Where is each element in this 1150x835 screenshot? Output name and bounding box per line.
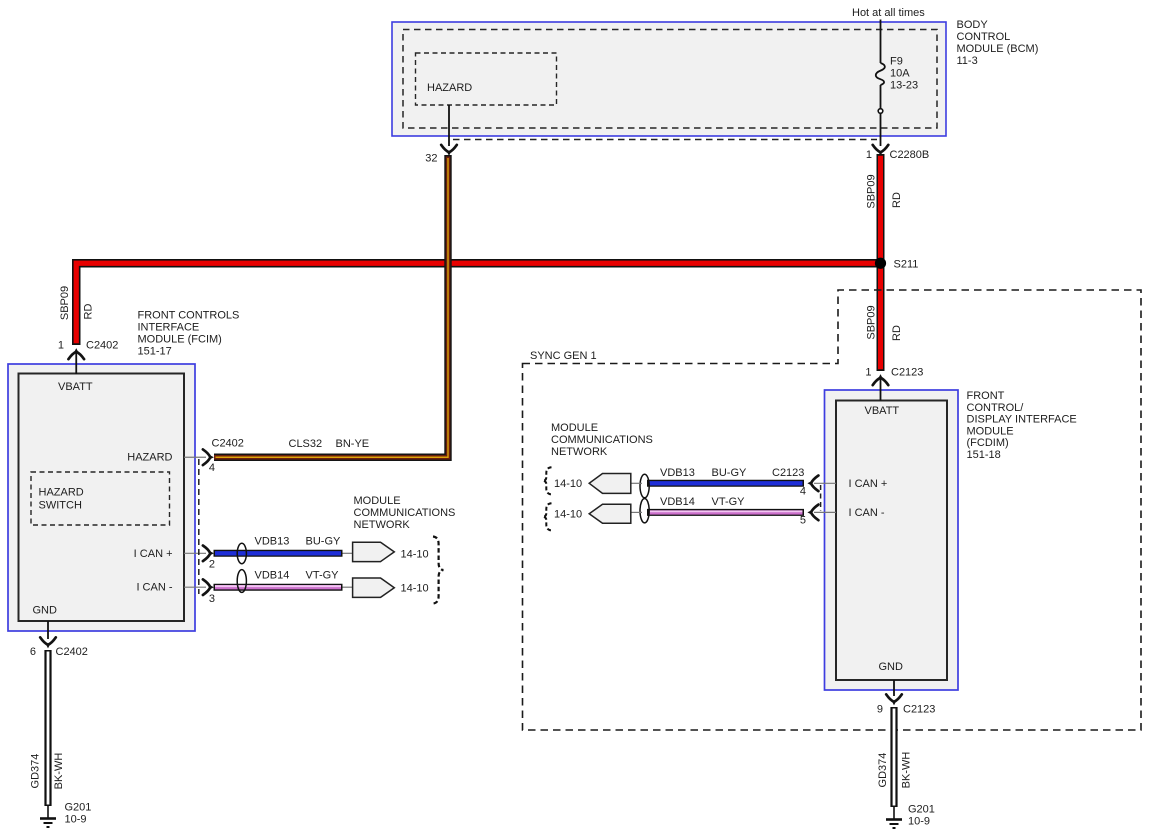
wire CLS32 BN-YE from BCM pin32 to FCIM pin4 [214, 155, 448, 457]
module FCDIM outer box [825, 390, 959, 690]
svg-text:C2123: C2123 [891, 367, 923, 379]
pin 5 of FCDIM C2123 [800, 505, 819, 527]
svg-text:FRONT CONTROLS: FRONT CONTROLS [138, 310, 240, 322]
svg-text:1: 1 [865, 367, 871, 379]
svg-text:MODULE (BCM): MODULE (BCM) [957, 43, 1039, 55]
svg-text:C2123: C2123 [903, 704, 935, 716]
svg-text:G201: G201 [65, 802, 92, 814]
brace left-facing lower right [543, 503, 552, 530]
svg-text:VDB14: VDB14 [255, 570, 290, 582]
wire GND lead out of FCIM [47, 621, 49, 639]
pin 4 of FCDIM C2123 [800, 476, 819, 498]
svg-text:C2123: C2123 [772, 467, 804, 479]
lead line off-page connector upper right [631, 482, 642, 484]
svg-text:5: 5 [800, 515, 806, 527]
svg-text:SBP09: SBP09 [865, 174, 877, 208]
hazard relay dashed box in BCM [416, 53, 557, 105]
svg-text:COMMUNICATIONS: COMMUNICATIONS [551, 434, 653, 446]
svg-text:FRONT: FRONT [967, 390, 1005, 402]
lead line FCIM pin 4 [184, 456, 206, 458]
lead line FCDIM pin 4 [814, 482, 836, 484]
wire to ground G201 right [893, 807, 895, 819]
svg-text:BU-GY: BU-GY [306, 536, 342, 548]
svg-text:1: 1 [58, 340, 64, 352]
svg-text:RD: RD [82, 304, 94, 320]
svg-text:RD: RD [891, 192, 903, 208]
svg-text:RD: RD [891, 325, 903, 341]
connector C2123 dashed link line [820, 485, 822, 511]
svg-text:VT-GY: VT-GY [306, 570, 340, 582]
wire VDB14 VT-GY to FCDIM pin5 [647, 511, 804, 512]
lead line FCDIM pin 5 [814, 511, 836, 513]
pin 9 of FCDIM C2123 [877, 694, 936, 715]
lead line FCIM pin 3 [184, 586, 206, 588]
twisted pair symbol right [640, 474, 649, 523]
pin 32 of BCM [425, 145, 457, 165]
label MODULE COMMUNICATIONS NETWORK left [354, 495, 456, 531]
svg-text:C2280B: C2280B [890, 149, 930, 161]
wire SBP09 RD: left run from S211 to FCIM pin1 [76, 263, 880, 345]
node inside BCM [878, 109, 883, 114]
svg-text:VDB13: VDB13 [660, 467, 695, 479]
connector C2402 dashed link line [198, 459, 200, 594]
wire GD374 BK-WH left [44, 650, 51, 806]
svg-text:SBP09: SBP09 [59, 286, 71, 320]
off-page connector arrow 14-10 upper left [353, 542, 429, 561]
svg-text:BK-WH: BK-WH [53, 753, 65, 790]
svg-text:VBATT: VBATT [865, 405, 900, 417]
hazard switch dashed box [31, 472, 170, 525]
lead line FCIM pin 2 [184, 552, 206, 554]
svg-text:VT-GY: VT-GY [712, 496, 746, 508]
svg-text:HAZARD: HAZARD [39, 487, 84, 499]
twisted pair symbol left [237, 543, 246, 592]
svg-text:10A: 10A [890, 68, 910, 80]
ground symbol G201 left [40, 802, 91, 828]
svg-text:INTERFACE: INTERFACE [138, 322, 200, 334]
label BODY CONTROL MODULE (BCM) 11-3 [957, 19, 1039, 67]
svg-text:1: 1 [866, 149, 872, 161]
svg-text:9: 9 [877, 704, 883, 716]
svg-text:6: 6 [30, 646, 36, 658]
svg-text:C2402: C2402 [212, 438, 244, 450]
brace right-facing left network [433, 537, 444, 604]
svg-text:COMMUNICATIONS: COMMUNICATIONS [354, 507, 456, 519]
module BCM inner dashed box [403, 30, 937, 129]
svg-text:I CAN +: I CAN + [134, 548, 173, 560]
svg-text:4: 4 [209, 462, 215, 474]
svg-text:10-9: 10-9 [65, 814, 87, 826]
pin 3 of FCIM C2402 [203, 579, 215, 604]
connector C2280B dashed link line [453, 139, 877, 141]
wire SBP09 RD: S211 down to FCDIM C2123 pin1 [877, 263, 885, 371]
svg-text:DISPLAY INTERFACE: DISPLAY INTERFACE [967, 414, 1077, 426]
svg-text:NETWORK: NETWORK [551, 446, 608, 458]
svg-text:VDB14: VDB14 [660, 496, 695, 508]
svg-text:HAZARD: HAZARD [127, 452, 172, 464]
svg-text:G201: G201 [908, 804, 935, 816]
svg-text:MODULE: MODULE [967, 425, 1014, 437]
lead line off-page connector lower right [631, 511, 642, 513]
wire to ground G201 left [47, 806, 49, 818]
module FCIM outer box [8, 364, 195, 631]
svg-text:4: 4 [800, 486, 806, 498]
lead line to off-page connector 1 [343, 552, 354, 554]
svg-text:S211: S211 [894, 259, 919, 271]
svg-text:14-10: 14-10 [554, 478, 582, 490]
svg-text:BU-GY: BU-GY [712, 467, 748, 479]
svg-text:CLS32: CLS32 [289, 438, 323, 450]
svg-text:SYNC GEN 1: SYNC GEN 1 [530, 350, 597, 362]
svg-text:BK-WH: BK-WH [900, 752, 912, 789]
wire VDB13 BU-GY to FCDIM pin4 [647, 480, 804, 487]
wire SBP09 RD: BCM C2280B pin1 down to splice S211 [877, 154, 885, 263]
svg-text:VDB13: VDB13 [255, 536, 290, 548]
svg-text:MODULE: MODULE [551, 422, 598, 434]
module BCM outer box [392, 22, 946, 136]
svg-text:151-18: 151-18 [967, 449, 1001, 461]
pin 1 of BCM connector C2280B [866, 145, 929, 161]
wire GND lead out of FCDIM [893, 680, 895, 696]
svg-text:GD374: GD374 [30, 754, 42, 789]
module FCIM inner box [19, 374, 185, 622]
svg-text:14-10: 14-10 [401, 582, 429, 594]
svg-text:BN-YE: BN-YE [336, 438, 370, 450]
svg-text:CONTROL: CONTROL [957, 31, 1011, 43]
label MODULE COMMUNICATIONS NETWORK right [551, 422, 653, 458]
fuse F9 10A 13-23 [876, 56, 918, 92]
pin 2 of FCIM C2402 [203, 546, 215, 571]
svg-text:CONTROL/: CONTROL/ [967, 402, 1025, 414]
svg-text:MODULE (FCIM): MODULE (FCIM) [138, 334, 222, 346]
svg-text:151-17: 151-17 [138, 346, 172, 358]
wire VBATT pin lead into FCDIM [880, 378, 882, 401]
label FRONT CONTROLS INTERFACE MODULE (FCIM) 151-17 [138, 310, 240, 358]
svg-text:32: 32 [425, 153, 437, 165]
svg-text:NETWORK: NETWORK [354, 519, 411, 531]
svg-text:I CAN -: I CAN - [136, 582, 172, 594]
ground symbol G201 right [886, 804, 935, 829]
wire GD374 BK-WH right [890, 707, 897, 807]
svg-text:2: 2 [209, 558, 215, 570]
label FRONT CONTROL/ DISPLAY INTERFACE MODULE (FCDIM) 151-18 [967, 390, 1077, 461]
wire hot feed into BCM [880, 20, 882, 64]
off-page connector arrow 14-10 upper right [554, 474, 631, 494]
off-page connector arrow 14-10 lower left [353, 578, 429, 597]
wire VBATT pin lead into FCIM [75, 352, 77, 374]
svg-text:SWITCH: SWITCH [39, 500, 82, 512]
splice S211 [875, 258, 918, 271]
svg-text:HAZARD: HAZARD [427, 82, 472, 94]
svg-text:Hot at all times: Hot at all times [852, 7, 925, 19]
svg-text:10-9: 10-9 [908, 816, 930, 828]
svg-text:SBP09: SBP09 [865, 305, 877, 339]
pin 1 of FCDIM connector C2123 [865, 367, 923, 386]
brace left-facing upper right [543, 467, 552, 494]
svg-text:MODULE: MODULE [354, 495, 401, 507]
pin 6 of FCIM C2402 [30, 637, 88, 658]
svg-text:VBATT: VBATT [58, 381, 93, 393]
svg-text:C2402: C2402 [86, 340, 118, 352]
svg-text:14-10: 14-10 [554, 508, 582, 520]
off-page connector arrow 14-10 lower right [554, 504, 631, 523]
svg-text:F9: F9 [890, 56, 903, 68]
pin 1 of FCIM connector C2402 [58, 340, 119, 360]
wire hazard output inside BCM [448, 105, 450, 146]
svg-text:GND: GND [33, 605, 58, 617]
wire fuse to BCM pin 1 [880, 85, 882, 146]
pin 4 of FCIM C2402 [203, 438, 244, 475]
svg-text:I CAN +: I CAN + [849, 478, 888, 490]
wire VDB13 BU-GY from FCIM pin2 [214, 550, 343, 557]
svg-text:GD374: GD374 [877, 753, 889, 788]
svg-text:BODY: BODY [957, 19, 989, 31]
svg-text:C2402: C2402 [56, 646, 88, 658]
svg-text:GND: GND [879, 661, 904, 673]
boundary SYNC GEN 1 dashed box [523, 290, 1142, 730]
module FCDIM inner box [836, 401, 947, 681]
svg-text:I CAN -: I CAN - [849, 507, 885, 519]
lead line to off-page connector 2 [343, 586, 354, 588]
svg-text:3: 3 [209, 593, 215, 605]
svg-text:14-10: 14-10 [401, 548, 429, 560]
svg-text:11-3: 11-3 [957, 55, 978, 67]
svg-text:(FCDIM): (FCDIM) [967, 437, 1009, 449]
wire VDB14 VT-GY from FCIM pin3 [214, 586, 343, 587]
svg-text:13-23: 13-23 [890, 80, 918, 92]
